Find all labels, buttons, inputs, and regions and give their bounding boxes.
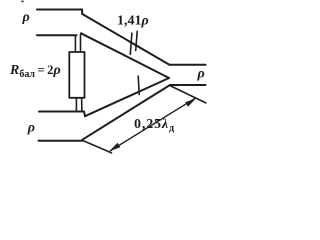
wire C horizontal <box>39 111 84 113</box>
svg-text:ρ: ρ <box>22 10 30 25</box>
tick mark on lower branch <box>138 76 139 95</box>
svg-text:Rбал = 2ρ: Rбал = 2ρ <box>9 63 61 80</box>
resistor bottom lead right <box>81 98 83 111</box>
svg-text:ρ: ρ <box>27 121 35 136</box>
wire A step <box>81 10 83 15</box>
ink speck top-left <box>21 1 23 3</box>
wire D diagonal <box>82 85 170 140</box>
wire A top horizontal <box>37 9 82 11</box>
dimension arrowhead upper-right <box>185 98 196 107</box>
wire B horizontal <box>37 34 77 36</box>
wire C step <box>84 112 85 117</box>
resistor R-bal body <box>69 52 84 98</box>
resistor bottom lead left <box>75 98 77 112</box>
wire top port horizontal <box>169 64 205 66</box>
dimension arrowhead lower-left <box>109 98 196 151</box>
wire dimension extension left <box>83 141 112 153</box>
dimension arrow shaft <box>111 98 196 150</box>
tick mark 1 on upper branch <box>130 33 132 54</box>
svg-text:ρ: ρ <box>197 67 205 82</box>
wire C diagonal <box>85 78 169 116</box>
wire D horizontal <box>39 140 83 142</box>
resistor top lead left <box>74 35 76 52</box>
svg-text:0,25λд: 0,25λд <box>134 117 175 134</box>
svg-text:1,41ρ: 1,41ρ <box>117 14 149 29</box>
wire dimension extension right <box>171 86 206 103</box>
tick mark 2 on upper branch <box>136 31 138 50</box>
wire B diagonal <box>81 33 169 78</box>
resistor top lead right <box>80 34 82 52</box>
wire bottom port horizontal <box>170 84 206 86</box>
wire A diagonal <box>82 14 169 65</box>
